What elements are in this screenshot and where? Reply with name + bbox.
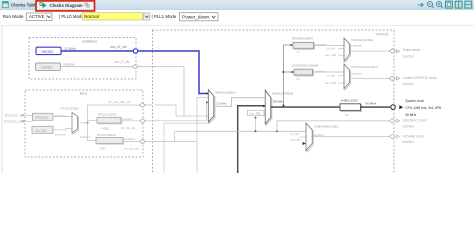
svg-text:ACTIVE: ACTIVE [29,14,45,19]
svg-text:CPU, AHB bus, 2x4, APB: CPU, AHB bus, 2x4, APB [405,106,441,110]
svg-text:Clocks Diagram: Clocks Diagram [50,3,83,8]
svg-text:inactive: inactive [316,43,327,47]
RTC group dashed box [25,90,143,157]
wire systick out [350,78,390,80]
svg-text:AHBCLKDIV: AHBCLKDIV [341,99,359,103]
svg-text:rtc_1s_clk: rtc_1s_clk [122,126,136,130]
wire hf blue [62,50,134,52]
svg-text:| PLL0 Mode: | PLL0 Mode [59,14,84,19]
svg-text:System clock: System clock [405,99,424,103]
svg-text:rtc_ms_clk: rtc_ms_clk [124,146,139,150]
port rtc base diamond [140,103,146,107]
svg-text:Cortex SYSTICK clock: Cortex SYSTICK clock [403,76,437,80]
svg-text:IPSOC6: IPSOC6 [376,33,389,37]
RTCOSC block [33,113,54,120]
oscillators group dashed box [29,38,136,80]
svg-text:TRACECLKDIV: TRACECLKDIV [292,37,315,41]
wire rtc row3 to fabric line [145,97,197,173]
wire uithab out [312,136,389,138]
svg-text:inactive: inactive [55,133,66,137]
svg-text:SDIODAC clock: SDIODAC clock [403,119,427,123]
wire osc_32k stub [255,116,257,132]
arrow mux2 in2 [263,105,266,107]
svg-text:RTCOSC: RTCOSC [36,115,49,119]
port rtc div2 diamond [140,139,146,143]
wire systick div out [313,71,345,73]
svg-text:inactive: inactive [403,124,415,128]
svg-text:/ 80: / 80 [100,147,105,151]
port rtc div1 diamond [140,119,146,123]
big dashed region [153,30,395,173]
port trace clock [389,49,395,54]
diagram panel left border [1,26,3,173]
svg-text:MUXCLKSELB: MUXCLKSELB [273,91,294,95]
wire trace div out [314,45,345,47]
wire hf blue to mux1 [138,51,209,94]
svg-text:Power_down: Power_down [182,14,209,19]
svg-text:/ 4250: / 4250 [101,126,110,130]
svg-text:osc_32k: osc_32k [35,128,47,132]
svg-text:USBHABCLKSEL: USBHABCLKSEL [314,125,339,129]
svg-text:RTCOSC_IN: RTCOSC_IN [5,113,23,117]
svg-text:| PLL1 Mode: | PLL1 Mode [152,14,177,19]
svg-text:inactive: inactive [80,135,91,139]
wire thick system clock out [271,106,340,108]
port lf diamond [132,65,138,69]
svg-text:mst_pb: mst_pb [291,138,301,142]
svg-text:/ 1: / 1 [345,113,349,117]
wire lf [61,66,133,68]
LSOSC block [36,63,61,70]
tab Clocks Table [3,2,39,8]
svg-text:inactive: inactive [403,54,415,58]
junction fabric 1 [255,130,257,132]
svg-text:RTCCLKSEL: RTCCLKSEL [61,107,79,111]
svg-text:/ 1: / 1 [296,77,300,81]
svg-text:12 MHz: 12 MHz [216,102,227,106]
wire rtc base row [88,104,140,106]
svg-text:TRACECLKSEL: TRACECLKSEL [351,38,374,42]
svg-text:inactive: inactive [352,43,363,47]
HSOSC block [36,47,61,54]
svg-text:hf_clk: hf_clk [291,132,299,136]
wire trace out [350,50,390,52]
port sdiodac clock [389,119,395,124]
svg-text:inactive: inactive [123,117,134,121]
svg-text:inactive: inactive [403,140,415,144]
wire rtc row2 long [144,102,208,121]
svg-text:96 MHz: 96 MHz [405,113,416,117]
svg-text:RTCCLKDIV2: RTCCLKDIV2 [97,133,116,137]
svg-text:RTC: RTC [80,92,88,96]
control bar [0,13,474,26]
wire sdiodac row [277,121,389,132]
junction fabric 2 [276,130,278,132]
wire rtc div2 out [123,141,140,143]
svg-text:inactive: inactive [403,82,415,86]
svg-text:96 MHz: 96 MHz [366,102,377,106]
svg-text:Normal: Normal [84,14,99,19]
svg-text:Clocks Table: Clocks Table [11,3,38,8]
svg-text:osc_32k: osc_32k [250,111,262,115]
wires to rtc mux [53,116,72,118]
tap vertical to dividers [283,45,291,106]
svg-text:inactive: inactive [63,63,75,67]
svg-text:hf_clk: hf_clk [327,47,335,51]
svg-text:osc_hf_clk: osc_hf_clk [110,45,127,49]
svg-text:Run Mode: Run Mode [3,14,24,19]
svg-text:osc_lf_clk: osc_lf_clk [114,60,130,64]
svg-text:HSOSC: HSOSC [42,50,55,54]
svg-text:osc_b0k: osc_b0k [325,81,337,85]
svg-text:inactive: inactive [125,137,136,141]
svg-text:96 MHz: 96 MHz [273,100,284,104]
svg-text:oscillators: oscillators [82,40,97,44]
box osc_32k label [248,110,265,115]
node hf ring [133,49,137,53]
port uithab clock [389,134,395,139]
svg-text:MUXCLKSEL4: MUXCLKSEL4 [216,91,237,95]
wire rtc mux out [78,122,88,124]
svg-text:RTCCLKDIV1: RTCCLKDIV1 [98,113,117,117]
wire lf continue [138,67,184,116]
svg-text:/ 1: / 1 [297,50,301,54]
arrow mux1 in1 [206,92,208,94]
svg-text:Trace clock: Trace clock [403,48,421,52]
wire rtc pins [25,114,33,116]
svg-text:inactive: inactive [352,71,363,75]
wire rtc div1 out [121,120,140,122]
svg-text:inactive: inactive [316,69,327,73]
wire pll thick [238,106,266,173]
OSC32K block [32,126,53,133]
svg-text:SYSTICKCLKSEL2: SYSTICKCLKSEL2 [351,65,378,69]
port system clock ring [391,105,396,110]
wire mux1 input row y116 [176,115,208,117]
svg-text:hf_clk: hf_clk [327,74,335,78]
svg-text:SYSTICKCLKDIV8: SYSTICKCLKDIV8 [292,64,318,68]
junction rtc [87,122,89,124]
svg-text:LSOSC: LSOSC [41,66,53,70]
toolbar icons top right [418,2,443,9]
wire rtc row1 into region [144,105,177,116]
svg-text:UITHAB clock: UITHAB clock [403,134,424,138]
wire mux1 below branch [164,123,210,173]
wire mux1 out to mux2 [214,98,265,107]
svg-text:rtc_bas_32k_clk: rtc_bas_32k_clk [108,100,131,104]
tab Clocks Diagram (active, red annotation box) [36,1,95,11]
wire fabric line y131 [175,130,306,132]
wire system clock final [361,106,391,108]
svg-text:osc_b0k: osc_b0k [325,53,337,57]
arrow mux1 in3 [206,101,208,103]
port systick clock [389,76,395,81]
